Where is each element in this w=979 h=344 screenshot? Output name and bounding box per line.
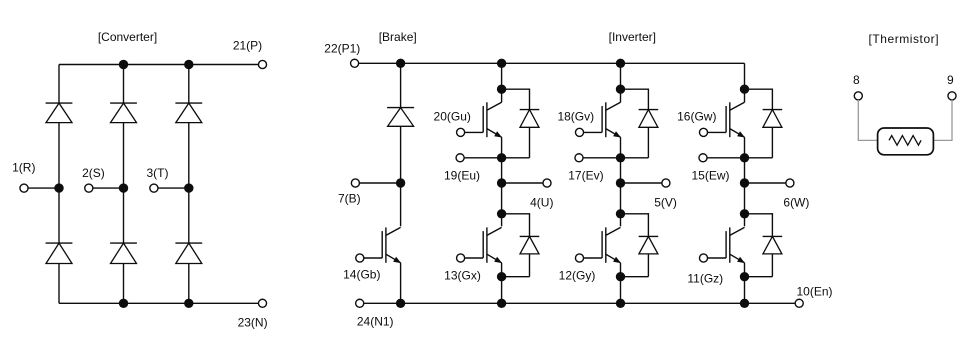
transistor Q5 (lower IGBT) (602, 227, 621, 263)
wire converter leg 2 upper segment (123, 65, 125, 104)
label 11(Gz) (687, 272, 723, 286)
svg-text:21(P): 21(P) (233, 39, 262, 53)
wire 6(W) leg collector drop (744, 63, 746, 89)
wire brake leg upper segment (400, 63, 402, 107)
svg-text:[Brake]: [Brake] (379, 30, 417, 44)
wire brake emitter to N1 rail (400, 263, 402, 304)
svg-text:2(S): 2(S) (82, 166, 105, 180)
diode D8 (upper freewheel) (520, 110, 540, 128)
junction P1 rail / 5(V) leg (616, 59, 625, 68)
wire 12(Gy) gate lead (584, 257, 603, 259)
wire converter leg 2 lower segment (123, 264, 125, 304)
wire 13(Gx) gate lead (465, 257, 484, 259)
wire D13 branch top (745, 213, 773, 236)
svg-text:7(B): 7(B) (338, 192, 361, 206)
wire 16(Gw) gate lead (708, 131, 727, 133)
wire 19(Eu) lead (464, 157, 501, 159)
junction N1 rail / 5(V) leg (616, 299, 625, 308)
diode D10 (upper freewheel) (763, 110, 783, 128)
wire 11(Gz) gate lead (708, 257, 727, 259)
diode D6 (converter lower arm 3) (175, 243, 202, 263)
label 22(P1) (324, 42, 360, 56)
svg-text:[Thermistor]: [Thermistor] (868, 32, 939, 46)
wire Q3 emitter (744, 137, 746, 158)
wire output node to lower collector node (620, 183, 622, 214)
label 16(Gw) (677, 110, 716, 124)
junction lower emitter node 6(W) leg (740, 272, 749, 281)
transistor Q4 (lower IGBT) (483, 227, 502, 263)
diode D7 (brake freewheel) (387, 108, 414, 127)
junction N1 rail / brake leg (396, 299, 405, 308)
wire converter leg 3 upper segment (188, 65, 190, 104)
diode D12 (lower freewheel) (639, 236, 659, 254)
junction node 1(R) / leg (54, 183, 63, 192)
wire 2(S) input lead (93, 187, 124, 189)
wire Q5 emitter (620, 263, 622, 277)
wire output node to lower collector node (501, 183, 503, 214)
wire 5(V) leg collector drop (620, 63, 622, 89)
junction converter N rail / leg 3 (184, 299, 193, 308)
label 12(Gy) (559, 269, 596, 283)
wire brake IGBT collector (400, 183, 402, 226)
svg-text:12(Gy): 12(Gy) (559, 269, 596, 283)
wire 20(Gu) gate lead (465, 131, 484, 133)
label 3(T) (147, 166, 169, 180)
wire converter leg 3 middle segment (188, 123, 190, 244)
junction lower emitter node 4(U) leg (497, 272, 506, 281)
svg-text:20(Gu): 20(Gu) (434, 110, 471, 124)
junction lower collector node 6(W) leg (740, 209, 749, 218)
svg-text:[Inverter]: [Inverter] (609, 30, 656, 44)
wire Q1 emitter (501, 137, 503, 158)
junction upper collector node 4(U) leg (497, 85, 506, 94)
terminal 4(U) (543, 179, 551, 187)
thermistor RT1 body (878, 128, 934, 155)
diode D3 (converter upper arm 3) (175, 103, 202, 123)
junction output node 4(U) (497, 178, 506, 187)
svg-text:4(U): 4(U) (530, 196, 553, 210)
terminal 19(Eu) (456, 154, 464, 162)
wire main N1 rail (364, 302, 796, 304)
wire Q1 collector (501, 89, 503, 102)
terminal 18(Gv) (575, 128, 583, 136)
wire 4(U) lead (502, 182, 543, 184)
label 20(Gu) (434, 110, 471, 124)
wire Q5 collector (620, 214, 622, 227)
terminal 13(Gx) (457, 254, 465, 262)
terminal 22(P1) (351, 59, 359, 67)
junction P1 rail / 4(U) leg (497, 59, 506, 68)
junction lower emitter node 5(V) leg (616, 272, 625, 281)
label 5(V) (654, 196, 677, 210)
wire Q2 emitter (620, 137, 622, 158)
wire 6(W) lead (745, 182, 786, 184)
label 17(Ev) (568, 169, 603, 183)
label 15(Ew) (691, 169, 729, 183)
junction lower collector node 5(V) leg (616, 209, 625, 218)
wire D12 branch bottom (621, 254, 649, 277)
junction upper collector node 6(W) leg (740, 85, 749, 94)
label pin 9 (947, 73, 954, 87)
terminal 2(S) (85, 184, 93, 192)
label 24(N1) (357, 315, 394, 329)
label 21(P) (233, 39, 262, 53)
wire thermistor lead 9 (921, 100, 952, 141)
wire 4(U) leg collector drop (501, 63, 503, 89)
label 13(Gx) (444, 269, 481, 283)
wire 3(T) input lead (158, 187, 189, 189)
label 14(Gb) (343, 268, 380, 282)
section label [Thermistor] (868, 32, 939, 46)
diode D1 (converter upper arm 1) (46, 103, 73, 123)
wire output node to lower collector node (744, 183, 746, 214)
terminal 16(Gw) (699, 128, 707, 136)
terminal 23(N) (258, 299, 266, 307)
wire converter leg 2 middle segment (123, 123, 125, 244)
label 18(Gv) (557, 110, 594, 124)
junction node 2(S) / leg (119, 183, 128, 192)
section label [Inverter] (609, 30, 656, 44)
label 23(N) (238, 316, 268, 330)
svg-text:14(Gb): 14(Gb) (343, 268, 380, 282)
terminal 12(Gy) (575, 254, 583, 262)
svg-text:23(N): 23(N) (238, 316, 268, 330)
label 1(R) (12, 161, 35, 175)
thermistor RT1 zigzag element (889, 136, 921, 146)
wire D13 branch bottom (745, 254, 773, 277)
wire 7(B) lead (359, 182, 400, 184)
diode D13 (lower freewheel) (763, 236, 783, 254)
wire converter leg 1 lower segment (58, 264, 60, 304)
junction node B (396, 178, 405, 187)
terminal 7(B) (351, 179, 359, 187)
svg-text:17(Ev): 17(Ev) (568, 169, 603, 183)
transistor Q2 (upper IGBT) (602, 102, 621, 137)
label 2(S) (82, 166, 105, 180)
svg-text:24(N1): 24(N1) (357, 315, 394, 329)
wire converter leg 1 upper segment (58, 65, 60, 104)
terminal 6(W) (786, 179, 794, 187)
wire Q3 collector (744, 89, 746, 102)
wire D12 branch top (621, 213, 649, 236)
junction upper collector node 5(V) leg (616, 85, 625, 94)
wire 15(Ew) node to output node (744, 158, 746, 183)
junction upper emitter node 15(Ew) (740, 153, 749, 162)
wire 18(Gv) gate lead (584, 131, 603, 133)
wire D10 branch top (745, 89, 773, 110)
svg-text:1(R): 1(R) (12, 161, 35, 175)
wire D11 branch top (502, 213, 530, 236)
junction converter N rail / leg 2 (119, 299, 128, 308)
wire D8 branch top (502, 89, 530, 110)
transistor Q1 (upper IGBT) (483, 102, 502, 137)
label 6(W) (783, 196, 809, 210)
wire 19(Eu) node to output node (501, 158, 503, 183)
transistor Q6 (lower IGBT) (726, 227, 745, 263)
terminal 8 (854, 92, 862, 100)
terminal 10(En) (795, 299, 803, 307)
wire lower emitter to N1 rail (620, 277, 622, 304)
wire brake gate lead (364, 257, 382, 259)
junction upper emitter node 19(Eu) (497, 153, 506, 162)
junction N1 rail / 4(U) leg (497, 299, 506, 308)
label 10(En) (796, 285, 832, 299)
wire 15(Ew) lead (707, 157, 744, 159)
svg-text:11(Gz): 11(Gz) (687, 272, 723, 286)
transistor Q3 (upper IGBT) (726, 102, 745, 137)
junction P1 rail / brake leg (396, 59, 405, 68)
svg-text:5(V): 5(V) (654, 196, 677, 210)
wire Q2 collector (620, 89, 622, 102)
diode D11 (lower freewheel) (520, 236, 540, 254)
label 4(U) (530, 196, 553, 210)
wire converter N rail (59, 302, 259, 304)
junction N1 rail / 6(W) leg (740, 299, 749, 308)
terminal 3(T) (150, 184, 158, 192)
junction node 3(T) / leg (184, 183, 193, 192)
svg-text:3(T): 3(T) (147, 166, 169, 180)
wire Q4 collector (501, 214, 503, 227)
diode D2 (converter upper arm 2) (110, 103, 137, 123)
wire D9 branch top (621, 89, 649, 110)
wire Q6 collector (744, 214, 746, 227)
terminal 5(V) (662, 179, 670, 187)
junction converter P rail / leg 2 (119, 60, 128, 69)
svg-text:13(Gx): 13(Gx) (444, 269, 481, 283)
junction lower collector node 4(U) leg (497, 209, 506, 218)
svg-text:9: 9 (947, 73, 954, 87)
wire Q6 emitter (744, 263, 746, 277)
diode D4 (converter lower arm 1) (46, 243, 73, 263)
wire D11 branch bottom (502, 254, 530, 277)
junction output node 6(W) (740, 178, 749, 187)
wire converter P rail (59, 64, 259, 66)
wire 5(V) lead (621, 182, 662, 184)
terminal 1(R) (20, 184, 28, 192)
terminal 24(N1) (356, 299, 364, 307)
junction converter P rail / leg 3 (184, 60, 193, 69)
wire Q4 emitter (501, 263, 503, 277)
terminal 17(Ev) (575, 154, 583, 162)
wire 17(Ev) node to output node (620, 158, 622, 183)
svg-text:16(Gw): 16(Gw) (677, 110, 716, 124)
wire 1(R) input lead (28, 187, 59, 189)
wire brake leg to node B (400, 126, 402, 183)
terminal 14(Gb) (356, 254, 364, 262)
wire 17(Ev) lead (583, 157, 620, 159)
terminal 11(Gz) (699, 254, 707, 262)
section label [Brake] (379, 30, 417, 44)
terminal 20(Gu) (457, 128, 465, 136)
svg-text:15(Ew): 15(Ew) (691, 169, 729, 183)
section label [Converter] (98, 30, 157, 44)
wire main P1 rail (359, 62, 745, 64)
svg-text:6(W): 6(W) (783, 196, 809, 210)
terminal 15(Ew) (699, 154, 707, 162)
diode D9 (upper freewheel) (639, 110, 659, 128)
svg-text:18(Gv): 18(Gv) (557, 110, 594, 124)
terminal 9 (948, 92, 956, 100)
label 19(Eu) (444, 169, 480, 183)
label pin 8 (853, 73, 860, 87)
label 7(B) (338, 192, 361, 206)
junction output node 5(V) (616, 178, 625, 187)
wire thermistor lead 8 (858, 100, 889, 141)
wire D8 branch bottom (502, 127, 530, 158)
wire lower emitter to N1 rail (744, 277, 746, 304)
junction upper emitter node 17(Ev) (616, 153, 625, 162)
terminal 21(P) (258, 60, 266, 68)
wire lower emitter to N1 rail (501, 277, 503, 304)
svg-text:8: 8 (853, 73, 860, 87)
svg-text:10(En): 10(En) (796, 285, 832, 299)
wire D9 branch bottom (621, 127, 649, 158)
svg-text:19(Eu): 19(Eu) (444, 169, 480, 183)
diode D5 (converter lower arm 2) (110, 243, 137, 263)
wire D10 branch bottom (745, 127, 773, 158)
wire converter leg 1 middle segment (58, 123, 60, 244)
svg-text:[Converter]: [Converter] (98, 30, 157, 44)
transistor Q7 (brake IGBT) (382, 227, 401, 263)
wire converter leg 3 lower segment (188, 264, 190, 304)
svg-text:22(P1): 22(P1) (324, 42, 360, 56)
